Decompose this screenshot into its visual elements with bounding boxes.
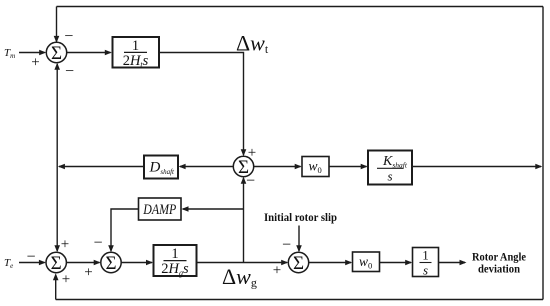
wire feedback right wall (542, 7, 544, 300)
svg-text:−: − (26, 249, 35, 266)
svg-text:Σ: Σ (51, 253, 62, 274)
svg-text:1: 1 (132, 38, 139, 54)
svg-text:Σ: Σ (293, 253, 304, 274)
svg-text:2Hgs: 2Hgs (161, 261, 189, 277)
svg-text:Initial rotor slip: Initial rotor slip (264, 212, 337, 224)
svg-text:−: − (93, 235, 102, 252)
svg-text:−: − (282, 237, 291, 254)
label Rotor Angle deviation (472, 250, 527, 276)
wire mid sum to w0 block (254, 164, 302, 170)
wire Dshaft output to left vertical junction (58, 164, 144, 170)
svg-text:1: 1 (422, 248, 429, 263)
svg-text:+: + (273, 263, 281, 279)
svg-text:−: − (246, 173, 255, 190)
block DAMP (139, 198, 182, 220)
wire block Hg output to sum S3 (node dwg) (197, 260, 288, 266)
svg-text:s: s (387, 169, 392, 184)
wire w0 to Kshaft block (329, 164, 368, 170)
wire Tm input (19, 50, 46, 56)
block 1/(2Hg s) (154, 245, 197, 277)
svg-text:+: + (62, 272, 70, 288)
wire feedback top wall (57, 6, 544, 8)
block Dshaft (144, 156, 178, 179)
svg-text:Δwt: Δwt (236, 31, 269, 57)
wire DAMP output down into sum S2g top (108, 209, 138, 252)
wire dwg branch to DAMP input (182, 206, 244, 212)
svg-text:s: s (423, 263, 428, 278)
wire integrator output to Rotor Angle deviation (439, 260, 467, 266)
block Kshaft/s (368, 151, 412, 185)
wire sum S1t to block Ht (67, 50, 112, 56)
svg-text:+: + (248, 145, 256, 161)
wire Te input (19, 260, 46, 266)
svg-text:deviation: deviation (478, 262, 520, 276)
svg-text:−: − (64, 28, 73, 45)
svg-text:+: + (61, 237, 69, 253)
summing junction S1t (46, 42, 66, 64)
svg-text:Σ: Σ (51, 43, 62, 64)
wire block Ht output to mid sum top (node dwt) (160, 53, 247, 157)
wire sum S3 to w0b block (309, 260, 352, 266)
summing junction S2g (101, 252, 121, 274)
wire dwg vertical up into mid sum bottom (241, 177, 247, 263)
wire w0b to integrator block (380, 260, 413, 266)
summing junction S3 (288, 252, 308, 274)
summing junction S1g (46, 252, 66, 274)
wire bottom feedback up into sum S1g bottom (53, 273, 59, 299)
block w0 mid (302, 157, 329, 177)
svg-text:−: − (65, 63, 74, 80)
wire left vertical Dshaft feedback (up to S1t, down to S1g) (54, 63, 60, 252)
summing junction Smid (233, 156, 253, 178)
wire feedback bottom wall (56, 299, 543, 301)
wire sum S2g to block Hg (121, 260, 153, 266)
block w0 bottom (353, 252, 380, 272)
svg-text:1: 1 (171, 246, 178, 262)
svg-text:+: + (31, 55, 39, 71)
block 1/(2Ht s) (113, 37, 160, 69)
block integrator 1/s (413, 248, 439, 278)
svg-text:2Hts: 2Hts (123, 53, 149, 69)
wire mid sum to Dshaft block (179, 164, 234, 170)
wire initial rotor slip down into sum S3 top (296, 226, 302, 253)
wire Kshaft output to right wall (412, 164, 542, 170)
wire sum S1g to sum S2g (66, 260, 100, 266)
svg-text:+: + (84, 265, 92, 281)
svg-text:DAMP: DAMP (143, 202, 177, 218)
svg-text:Σ: Σ (105, 253, 116, 274)
wire top feedback down into sum S1t top (54, 7, 60, 43)
